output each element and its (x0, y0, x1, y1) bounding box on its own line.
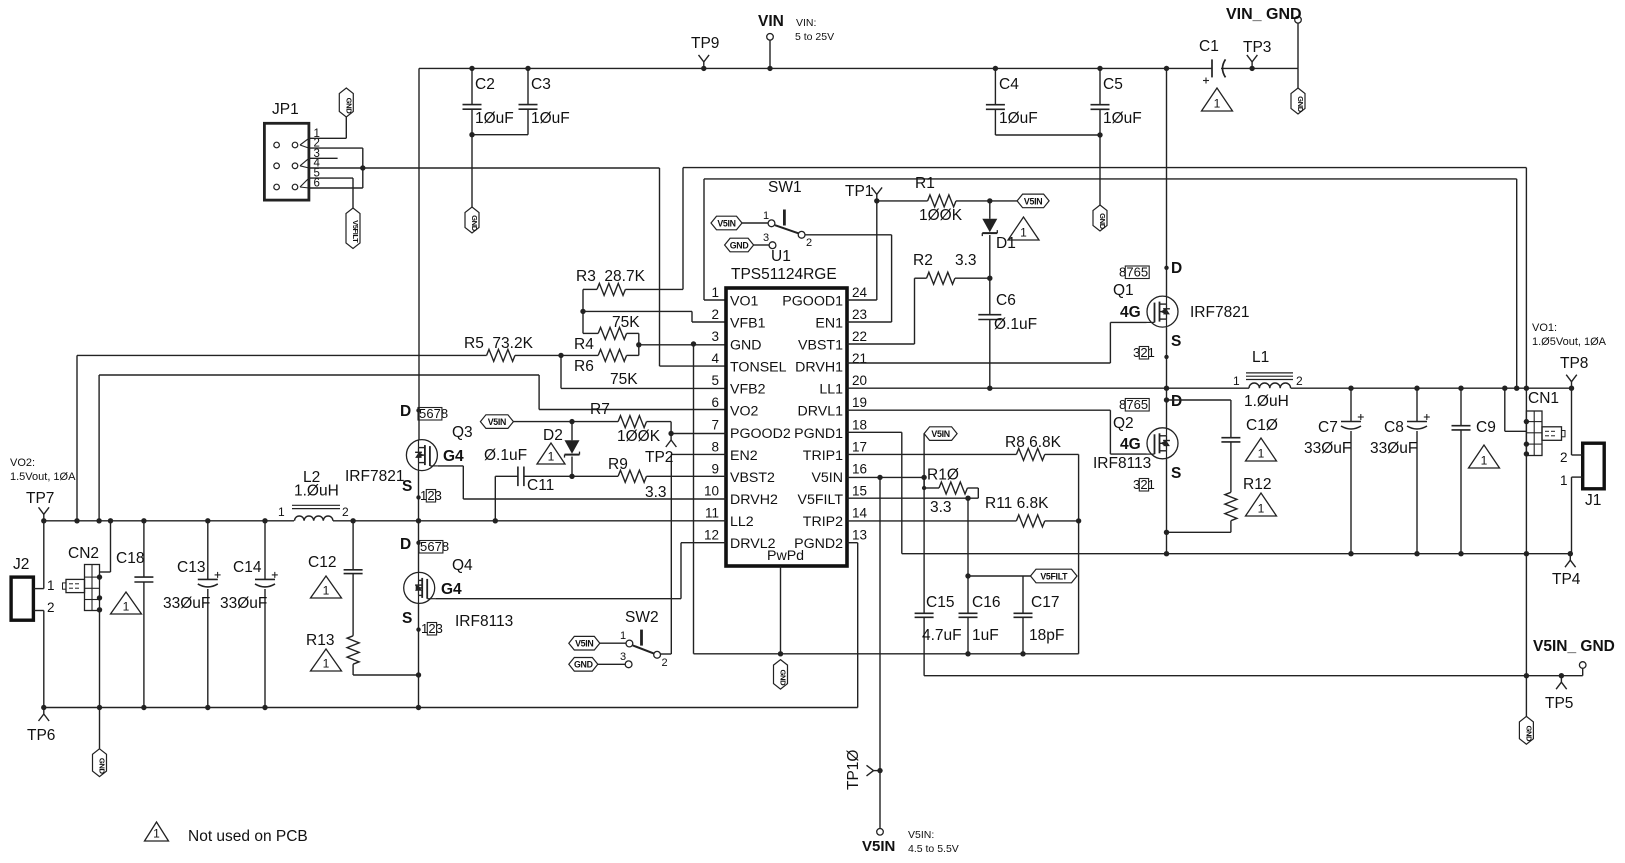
svg-text:TP6: TP6 (27, 727, 55, 744)
node Q1 source at LL1 (1164, 386, 1169, 391)
svg-text:V5IN: V5IN (717, 218, 735, 228)
svg-text:23: 23 (852, 307, 867, 322)
svg-text:S: S (1171, 333, 1181, 350)
wire R7 to TP2 (670, 422, 672, 434)
wire C4-C5 bottom join (995, 132, 1102, 137)
JP1 pin leads and numbers (300, 128, 321, 190)
wire L1 to output (1291, 387, 1572, 389)
svg-text:GND: GND (1098, 213, 1107, 230)
svg-text:V5IN: V5IN (488, 417, 506, 427)
wire JP1 pin2 (309, 147, 363, 149)
wire PGND2 pin13 (847, 543, 858, 708)
capacitor C13 (163, 521, 221, 708)
diode D2 (543, 422, 580, 477)
svg-text:2: 2 (427, 488, 434, 503)
node C6 to LL1 (987, 386, 992, 391)
svg-text:2: 2 (662, 657, 668, 669)
test point TP2 (645, 434, 676, 467)
svg-text:7: 7 (434, 406, 441, 421)
svg-text:V5IN: V5IN (931, 429, 949, 439)
svg-text:D2: D2 (543, 427, 563, 444)
svg-text:C18: C18 (116, 550, 144, 567)
wire C1 to VIN_GND terminal (1221, 23, 1298, 68)
wire JP1 pin1 to GND (309, 117, 346, 138)
svg-text:1ØØK: 1ØØK (919, 207, 963, 224)
wire output ground bus (902, 553, 1571, 555)
node Q3 source LL2 (416, 518, 421, 523)
wire J2 pin2 (33, 600, 54, 708)
capacitor C3 (519, 68, 570, 134)
capacitor C7 (1304, 388, 1364, 554)
capacitor C18 (116, 521, 153, 708)
svg-text:GND: GND (470, 215, 479, 232)
svg-text:9: 9 (711, 462, 719, 477)
svg-text:1: 1 (620, 630, 626, 642)
svg-text:1uF: 1uF (972, 627, 999, 644)
resistor R9 (608, 456, 726, 501)
capacitor C5 (1091, 68, 1142, 135)
svg-text:C17: C17 (1031, 594, 1059, 611)
node Q1 drain VIN (1164, 66, 1169, 71)
capacitor C1 (1199, 38, 1226, 84)
transistor Q4 IRF8113 (400, 536, 513, 630)
svg-text:R1: R1 (915, 175, 935, 192)
svg-text:33ØuF: 33ØuF (220, 595, 267, 612)
svg-text:5: 5 (1141, 397, 1148, 412)
Q2 source pin numbers (1133, 477, 1155, 492)
svg-text:1.ØuH: 1.ØuH (294, 483, 339, 500)
wire Q1 source (1166, 327, 1168, 388)
wire R5 to VO2 bus (74, 355, 79, 523)
wire CN1 ground column (1525, 388, 1527, 554)
svg-text:LL2: LL2 (730, 514, 754, 530)
svg-text:PGND1: PGND1 (794, 426, 843, 442)
U1 pin names and numbers (704, 285, 868, 564)
svg-text:TRIP2: TRIP2 (803, 514, 843, 530)
svg-text:1: 1 (711, 285, 719, 300)
node C14 top (262, 518, 267, 523)
svg-text:VIN: VIN (758, 13, 784, 30)
svg-text:1.Ø5Vout, 1ØA: 1.Ø5Vout, 1ØA (1532, 336, 1607, 348)
svg-text:Ø.1uF: Ø.1uF (484, 447, 527, 464)
svg-text:6: 6 (1134, 265, 1141, 280)
svg-text:SW1: SW1 (768, 179, 802, 196)
wire CN2 ground column (99, 611, 101, 708)
svg-text:R8 6.8K: R8 6.8K (1005, 434, 1062, 451)
svg-text:4G: 4G (1120, 436, 1141, 453)
wire V5IN pin16 (847, 476, 924, 478)
svg-text:15: 15 (852, 484, 867, 499)
svg-text:24: 24 (852, 285, 868, 300)
svg-text:1ØuF: 1ØuF (1103, 110, 1142, 127)
wire TP3 ground drop (1297, 68, 1299, 88)
wire VO1 sense (683, 168, 1526, 388)
svg-text:SW2: SW2 (625, 609, 659, 626)
svg-text:1: 1 (1560, 473, 1568, 488)
svg-text:C16: C16 (972, 594, 1000, 611)
svg-text:33ØuF: 33ØuF (163, 595, 210, 612)
node C8 bottom (1414, 551, 1419, 556)
net V5FILT at JP1 (346, 208, 360, 249)
switch SW1 pin3 contact (769, 242, 776, 249)
svg-text:4.7uF: 4.7uF (922, 627, 962, 644)
svg-text:5 to 25V: 5 to 25V (795, 31, 834, 43)
JP1 pin circles (274, 142, 298, 190)
svg-text:1ØØK: 1ØØK (617, 428, 661, 445)
svg-text:2: 2 (47, 600, 55, 615)
svg-text:TP4: TP4 (1552, 571, 1581, 588)
wire J1 pin1 (1560, 473, 1583, 554)
node C13 bottom (205, 705, 210, 710)
test point TP3 (1243, 39, 1271, 68)
transistor Q1 IRF7821 (1113, 260, 1249, 350)
node R1-D1 junction (987, 198, 992, 203)
svg-text:V5FILT: V5FILT (351, 220, 360, 243)
svg-text:1: 1 (1481, 454, 1488, 468)
resistor R1 (877, 175, 990, 224)
note VIN voltage (795, 17, 834, 43)
svg-text:5: 5 (711, 373, 719, 388)
node C16 gnd (965, 651, 970, 656)
ground V5IN_GND rail (1519, 716, 1533, 744)
node Q2 source gnd (1164, 551, 1169, 556)
wire VO2 sense (96, 375, 726, 524)
net V5FILT flag (1031, 569, 1078, 583)
node C9 bottom (1458, 551, 1463, 556)
svg-text:33ØuF: 33ØuF (1370, 440, 1417, 457)
wire TONSEL net (363, 168, 726, 366)
svg-text:12: 12 (704, 528, 719, 543)
svg-text:2: 2 (342, 505, 349, 519)
svg-text:2: 2 (1140, 345, 1147, 360)
svg-text:C1: C1 (1199, 38, 1219, 55)
svg-text:1ØuF: 1ØuF (531, 110, 570, 127)
node C16 top (965, 496, 970, 501)
note V5IN voltage (908, 829, 959, 855)
svg-text:D: D (1171, 393, 1182, 410)
resistor R2 (913, 252, 990, 284)
Q3 drain pin numbers (416, 406, 448, 421)
svg-text:Q4: Q4 (452, 557, 473, 574)
svg-text:TP1: TP1 (845, 183, 873, 200)
svg-text:TP5: TP5 (1545, 695, 1573, 712)
node TP1 (874, 198, 879, 203)
wire VFB1 pin jog (583, 311, 726, 322)
svg-text:D: D (400, 403, 411, 420)
svg-text:1.5Vout, 1ØA: 1.5Vout, 1ØA (10, 471, 76, 483)
resistor R3 (576, 268, 683, 295)
wire R4 to GND node (638, 333, 640, 344)
wire PwPd ground (780, 566, 782, 654)
wire Q1 drain (1166, 68, 1168, 296)
node C8 top (1414, 386, 1419, 391)
svg-text:VFB1: VFB1 (730, 316, 766, 332)
node TP10 (877, 768, 882, 773)
svg-text:1.ØuH: 1.ØuH (1244, 393, 1289, 410)
not-used flag C12 (311, 576, 342, 598)
wire V5IN vertical (879, 477, 881, 828)
svg-text:V5IN: V5IN (862, 838, 895, 855)
node C11 tap (493, 518, 498, 523)
svg-text:Ø.1uF: Ø.1uF (994, 316, 1037, 333)
svg-text:16: 16 (852, 462, 867, 477)
node TP9 junction (701, 66, 706, 71)
wire Q4 gate to DRVL2 (435, 543, 726, 599)
node V5IN vertical tap (877, 475, 882, 480)
Q3 source pin numbers (416, 488, 442, 503)
capacitor C12 (308, 521, 363, 636)
svg-text:20: 20 (852, 373, 867, 388)
connector CN1 (1526, 390, 1565, 456)
wire PGOOD1 to TP1 (847, 201, 877, 300)
svg-text:C6: C6 (996, 292, 1016, 309)
svg-text:R4: R4 (574, 336, 594, 353)
svg-text:Q3: Q3 (452, 424, 473, 441)
svg-text:2: 2 (711, 307, 719, 322)
wire CN1 plug to output bus (1502, 386, 1526, 432)
net V5IN at SW1 (711, 216, 742, 230)
capacitor C14 (220, 521, 278, 708)
svg-text:TP2: TP2 (645, 449, 673, 466)
svg-text:1ØuF: 1ØuF (475, 110, 514, 127)
svg-text:V5IN:: V5IN: (908, 829, 934, 841)
resistor R5 (77, 335, 561, 361)
test point TP10 (845, 750, 880, 790)
wire C2-C3 bottom join (469, 132, 528, 137)
svg-text:1: 1 (323, 657, 330, 671)
node C18 bottom (141, 705, 146, 710)
not-used flag R13 (311, 649, 342, 671)
capacitor C16 (959, 498, 1001, 654)
svg-text:V5IN: V5IN (575, 639, 593, 649)
resistor R8 (847, 434, 1079, 460)
Q4 drain pin numbers (416, 539, 449, 554)
svg-text:VBST2: VBST2 (730, 470, 775, 486)
svg-text:1: 1 (548, 450, 555, 464)
not-used flag D1 (1008, 217, 1039, 240)
svg-text:R2: R2 (913, 252, 933, 269)
capacitor C10 (1221, 417, 1277, 492)
svg-text:C12: C12 (308, 554, 336, 571)
wire VFB2 jog (561, 355, 726, 388)
svg-text:DRVH2: DRVH2 (730, 492, 778, 508)
svg-text:GND: GND (1524, 725, 1533, 742)
wire VBST1 to R2 (847, 278, 927, 344)
wire R6 to junction (638, 345, 640, 356)
node R4-R6 junction (636, 342, 641, 347)
transistor Q2 IRF8113 (1093, 393, 1182, 482)
svg-text:C5: C5 (1103, 76, 1123, 93)
test point TP7 (26, 490, 54, 524)
svg-text:GND: GND (574, 660, 593, 670)
switch SW2 pin3 contact (625, 661, 632, 668)
connector J2 (11, 556, 33, 620)
svg-text:EN1: EN1 (815, 316, 843, 332)
not-used flag C9 (1469, 445, 1500, 468)
svg-text:GND: GND (344, 98, 353, 115)
node TP2 (668, 431, 673, 436)
svg-text:C9: C9 (1476, 419, 1496, 436)
svg-text:3: 3 (620, 651, 626, 663)
node C5 top (1097, 66, 1102, 71)
svg-text:R1Ø: R1Ø (927, 467, 959, 484)
svg-text:GND: GND (779, 670, 788, 687)
connector JP1 (264, 101, 309, 200)
wire C11 tap to switch node (494, 476, 496, 521)
node VO1 sense taps (1514, 386, 1529, 391)
terminal VIN (758, 13, 784, 71)
svg-text:R6: R6 (574, 358, 594, 375)
svg-text:CN2: CN2 (68, 545, 99, 562)
svg-text:IRF8113: IRF8113 (1093, 455, 1151, 472)
node R2-C6 junction (987, 276, 992, 281)
node JP1 common (360, 165, 365, 170)
svg-text:1: 1 (1233, 374, 1240, 388)
net V5IN at R7 (480, 415, 513, 429)
wire DRVH1 to Q1 gate (847, 322, 1147, 363)
svg-text:IRF7821: IRF7821 (1190, 304, 1249, 321)
svg-text:U1: U1 (771, 248, 791, 265)
svg-text:VO1:: VO1: (1532, 322, 1557, 334)
wire JP1 pin4 (309, 167, 363, 169)
svg-text:C15: C15 (926, 594, 954, 611)
svg-text:TP1Ø: TP1Ø (845, 750, 862, 790)
node V5IN_GND main (1524, 673, 1529, 678)
svg-text:C11: C11 (527, 477, 554, 494)
wire CN2 top to VO2 bus (100, 518, 114, 572)
svg-text:2: 2 (1296, 374, 1303, 388)
inductor L1 (1233, 349, 1303, 410)
wire JP1 common vertical (362, 148, 364, 188)
svg-text:5: 5 (420, 539, 427, 554)
svg-text:75K: 75K (610, 371, 638, 388)
node CN2 gnd bus (97, 705, 102, 710)
svg-text:1: 1 (1214, 97, 1221, 111)
svg-text:6: 6 (427, 539, 434, 554)
svg-text:8: 8 (711, 439, 719, 454)
wire VFB1 to R4 (582, 311, 584, 333)
ground JP1 (339, 88, 353, 117)
wire JP1 pin6 (309, 187, 363, 189)
svg-text:JP1: JP1 (272, 101, 299, 118)
wire J1 pin2 (1560, 388, 1583, 465)
svg-text:V5FILT: V5FILT (1040, 571, 1068, 581)
svg-text:1: 1 (1020, 226, 1027, 240)
wire LL2 switch node (333, 520, 726, 522)
resistor R11 (847, 495, 1079, 527)
resistor R13 (306, 632, 419, 675)
svg-text:Q2: Q2 (1113, 415, 1134, 432)
node VFB1 divider (580, 309, 585, 314)
svg-text:D: D (400, 536, 411, 553)
svg-text:S: S (402, 478, 412, 495)
svg-text:R11 6.8K: R11 6.8K (985, 495, 1049, 512)
test point TP1 (845, 183, 882, 201)
wire Q2 source (1166, 459, 1168, 554)
diode D1 (982, 201, 1016, 278)
ground C5 (1093, 205, 1107, 231)
test point TP9 (691, 35, 719, 68)
svg-text:75K: 75K (612, 314, 640, 331)
test point TP6 (27, 705, 55, 744)
svg-text:10: 10 (704, 484, 719, 499)
connector CN2 (63, 545, 100, 611)
node CN1 pads (1524, 419, 1529, 457)
svg-text:14: 14 (852, 506, 868, 521)
not-used flag CN2 (111, 592, 142, 614)
wire VO2 bus (44, 520, 294, 522)
wire Q3 source (418, 471, 420, 521)
node V5IN R10 tap (921, 475, 926, 480)
node D2 cathode (569, 474, 574, 479)
capacitor C9 (1452, 388, 1496, 554)
svg-text:7: 7 (1126, 265, 1133, 280)
svg-text:1: 1 (1258, 502, 1265, 516)
capacitor C11 (484, 447, 618, 494)
ground PwPd (774, 660, 788, 690)
svg-text:L1: L1 (1252, 349, 1269, 366)
svg-text:4.5 to 5.5V: 4.5 to 5.5V (908, 843, 959, 855)
node Q4 source R13 (416, 672, 421, 677)
resistor R12 (1167, 476, 1272, 532)
wire Q4 source (418, 603, 420, 707)
op-amp U1 TPS51124RGE box (726, 248, 847, 566)
svg-text:5: 5 (1141, 265, 1148, 280)
svg-text:22: 22 (852, 329, 867, 344)
svg-text:C1Ø: C1Ø (1246, 417, 1278, 434)
not-used flag C1 (1202, 88, 1233, 111)
switch SW2 (625, 609, 668, 669)
test point TP4 (1552, 551, 1581, 588)
svg-text:3: 3 (763, 232, 769, 244)
svg-text:VFB2: VFB2 (730, 382, 766, 398)
wire JP1 pin5 to V5FILT (309, 178, 353, 208)
node C13 top (205, 518, 210, 523)
svg-text:C13: C13 (177, 559, 205, 576)
node C2 top (469, 66, 474, 71)
svg-text:DRVH1: DRVH1 (795, 360, 843, 376)
svg-text:C4: C4 (999, 76, 1019, 93)
wire C10 branch (1167, 400, 1231, 438)
svg-text:DRVL1: DRVL1 (798, 404, 844, 420)
wire Q3 gate to DRVH2 (438, 466, 726, 499)
not-used flag C10 (1246, 438, 1277, 461)
node C3 top (525, 66, 530, 71)
svg-text:VBST1: VBST1 (798, 338, 843, 354)
svg-text:D: D (1171, 260, 1182, 277)
node R11 gnd (1076, 518, 1081, 523)
wire SW2 to EN2 (661, 454, 727, 654)
resistor R6 (561, 349, 639, 388)
svg-text:1ØuF: 1ØuF (999, 110, 1038, 127)
net GND at SW2 (569, 658, 598, 672)
svg-text:S: S (1171, 465, 1181, 482)
svg-text:G4: G4 (443, 448, 464, 465)
resistor R4 (574, 314, 640, 353)
svg-text:1: 1 (153, 827, 160, 841)
resistor R7 (572, 401, 671, 445)
svg-text:G4: G4 (441, 581, 462, 598)
svg-text:IRF7821: IRF7821 (345, 468, 404, 485)
wire CN2 gnd drop (99, 708, 101, 749)
svg-text:4: 4 (711, 351, 719, 366)
svg-text:1: 1 (47, 578, 55, 593)
node D2 anode (569, 419, 574, 424)
wire SW1 to EN1 (805, 235, 892, 322)
Q1 source pin numbers (1133, 345, 1169, 360)
svg-text:C7: C7 (1318, 419, 1338, 436)
svg-text:3.3: 3.3 (955, 252, 977, 269)
